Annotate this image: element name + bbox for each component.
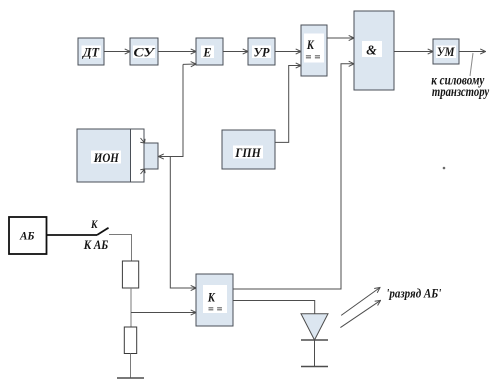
- wire UR to K==: [275, 51, 301, 53]
- block K== comparator top (К ==): [301, 25, 327, 76]
- wire switch to resistor chain: [109, 235, 132, 262]
- block UR (УР): [248, 38, 275, 65]
- svg-text:транзстору: транзстору: [432, 85, 490, 100]
- stray dot: [443, 167, 446, 170]
- thick wire from AB: [47, 234, 97, 236]
- svg-text:АБ: АБ: [19, 231, 34, 243]
- svg-text:К: К: [90, 217, 98, 231]
- svg-text:'разряд АБ': 'разряд АБ': [386, 286, 441, 301]
- block DT (ДТ): [78, 38, 104, 65]
- svg-text:ИОН: ИОН: [93, 150, 120, 165]
- wire UM output: [459, 51, 486, 53]
- ION trim box: [144, 143, 158, 169]
- arrowhead bottom-left of trim box: [140, 169, 145, 174]
- block SU (СУ): [130, 38, 158, 65]
- svg-text:СУ: СУ: [134, 45, 157, 60]
- wire bottom K== output2 to diode: [233, 301, 315, 314]
- wire E to UR: [223, 51, 248, 53]
- feedback wire into E bottom: [183, 63, 196, 65]
- wire R2 to ground: [130, 354, 132, 379]
- wire R1 to R2: [130, 288, 132, 327]
- svg-text:УМ: УМ: [437, 44, 455, 59]
- arrowhead top-left of trim box: [140, 138, 145, 143]
- branch wire down to bottom K==: [170, 157, 196, 289]
- annotation arrow 1 (razryad AB): [341, 288, 380, 316]
- svg-text:ДТ: ДТ: [82, 45, 100, 60]
- wire from right into trim box: [159, 64, 184, 156]
- block E (Е): [196, 38, 223, 65]
- svg-text:К: К: [306, 37, 315, 52]
- svg-text:= =: = =: [208, 305, 223, 316]
- block AB battery (АБ): [9, 217, 47, 254]
- callout line to label: [470, 53, 473, 76]
- block AND gate (&): [354, 11, 394, 90]
- annotation arrow 2: [340, 300, 380, 327]
- resistor R2: [124, 327, 136, 354]
- junction wire to bottom K==: [131, 312, 196, 314]
- svg-text:Е: Е: [202, 44, 211, 59]
- svg-text:= =: = =: [305, 52, 320, 64]
- block ION (ИОН): [77, 129, 144, 182]
- wire K== to &: [327, 37, 354, 39]
- block K== comparator bottom (К ==): [196, 274, 233, 326]
- svg-text:К АБ: К АБ: [83, 237, 108, 252]
- block UM (УМ): [433, 39, 459, 64]
- svg-text:ГПН: ГПН: [234, 145, 261, 160]
- wire GPN to K==: [275, 66, 301, 143]
- resistor R1: [122, 261, 138, 288]
- switch lever K: [97, 228, 108, 235]
- block GPN (ГПН): [222, 130, 275, 169]
- svg-text:&: &: [366, 44, 377, 59]
- wire bottom K== output up to &: [233, 64, 354, 289]
- ground bar left: [117, 377, 144, 379]
- diode VD: [301, 314, 328, 367]
- wire & to UM: [394, 51, 433, 53]
- wire DT to SU: [104, 51, 130, 53]
- wire SU to E: [158, 51, 196, 53]
- svg-text:К: К: [207, 290, 216, 305]
- svg-text:УР: УР: [254, 44, 271, 59]
- ground bar right: [301, 366, 328, 368]
